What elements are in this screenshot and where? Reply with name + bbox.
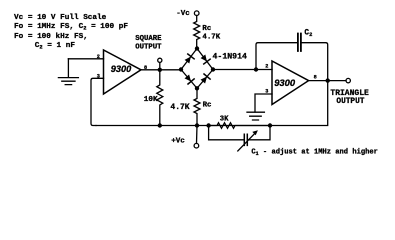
capacitor C1 (variable) branch — [209, 126, 270, 140]
resistor R 10K — [157, 70, 163, 126]
bottom feedback wire — [96, 81, 328, 126]
node Rc bottom / +Vc — [195, 123, 199, 127]
svg-text:3K: 3K — [220, 116, 229, 124]
svg-text:4-1N914: 4-1N914 — [213, 52, 247, 61]
caption text — [251, 148, 377, 157]
svg-text:10K: 10K — [144, 96, 158, 104]
svg-text:Fo = 1MHz FS, C2 = 100 pF: Fo = 1MHz FS, C2 = 100 pF — [14, 23, 128, 32]
node bridge left — [179, 67, 183, 71]
header note text — [14, 14, 128, 51]
C1 adjust arrow — [238, 132, 256, 151]
svg-text:OUTPUT: OUTPUT — [135, 43, 162, 51]
resistor Rc 4.7K (top) — [194, 16, 200, 49]
node square out — [158, 68, 162, 72]
square output terminal — [158, 58, 162, 62]
svg-text:SQUARE: SQUARE — [135, 35, 162, 43]
svg-text:9300: 9300 — [274, 77, 296, 88]
svg-text:Rc: Rc — [202, 25, 211, 33]
diode D1 (left-top) — [184, 54, 194, 64]
svg-text:OUTPUT: OUTPUT — [336, 98, 364, 106]
svg-text:4.7K: 4.7K — [202, 34, 220, 42]
svg-text:-Vc: -Vc — [176, 10, 190, 18]
svg-text:Vc = 10 V Full Scale: Vc = 10 V Full Scale — [14, 14, 107, 22]
diode bridge 4-1N914 — [181, 49, 213, 89]
wire pin3 U1 feedback — [91, 78, 104, 125]
svg-text:C2: C2 — [304, 29, 312, 38]
diode D4 (bottom-right) — [200, 74, 210, 84]
triangle output terminal — [346, 78, 350, 82]
resistor R 3K — [209, 123, 270, 129]
capacitor C2 feedback loop — [256, 43, 328, 81]
svg-text:4.7K: 4.7K — [170, 103, 189, 112]
svg-text:2: 2 — [97, 54, 100, 60]
diode D3 (left-bottom) — [184, 74, 194, 84]
diode D2 (top-right) — [200, 54, 210, 64]
wire U2 output — [309, 80, 346, 82]
node bridge bottom — [195, 86, 199, 90]
capacitor C1 plates — [244, 134, 247, 145]
svg-text:+Vc: +Vc — [171, 138, 185, 146]
op-amp U1 (9300) — [104, 50, 142, 94]
op-amp U2 (9300) — [272, 61, 309, 105]
node C1 branch left — [206, 123, 210, 127]
wire bridge right to U2 input — [213, 69, 272, 71]
svg-text:C2 = 1 nF: C2 = 1 nF — [35, 42, 76, 51]
node U2 input — [254, 67, 258, 71]
node bridge right — [211, 67, 215, 71]
wire U1 output — [141, 69, 181, 71]
wire pin3 U2 to ground — [255, 94, 272, 112]
node U2 output — [326, 78, 330, 82]
node C1 branch right — [268, 123, 272, 127]
svg-text:Rc: Rc — [203, 102, 212, 110]
node bridge top — [195, 46, 199, 50]
-Vc terminal — [194, 11, 199, 16]
capacitor C2 plates — [298, 34, 301, 52]
svg-text:2: 2 — [265, 63, 268, 69]
svg-text:TRIANGLE: TRIANGLE — [330, 89, 369, 98]
wire pin2 U1 to ground — [68, 58, 103, 60]
svg-text:8: 8 — [314, 75, 317, 81]
svg-text:Fo = 100 kHz FS,: Fo = 100 kHz FS, — [14, 33, 88, 41]
svg-text:9300: 9300 — [111, 64, 132, 74]
ground (op-amp U1 pin 2) — [58, 59, 78, 85]
+Vc terminal — [196, 126, 199, 144]
svg-text:C1 - adjust at 1MHz and higher: C1 - adjust at 1MHz and higher — [251, 148, 377, 157]
ground (op-amp U2 pin 3) — [247, 112, 264, 120]
resistor Rc 4.7K (bottom) — [194, 88, 200, 125]
node 10K bottom — [158, 123, 162, 127]
